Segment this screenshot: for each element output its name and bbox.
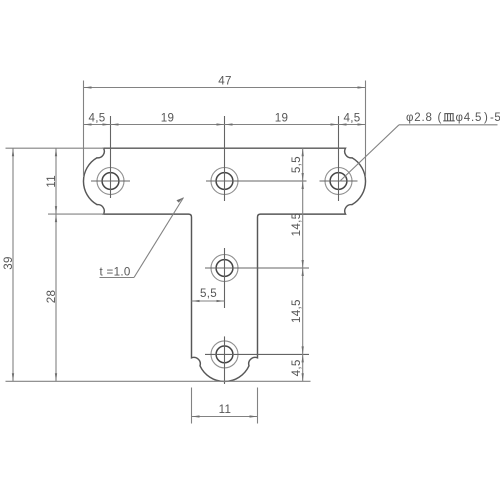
svg-text:φ4.5: φ4.5	[456, 112, 483, 124]
hole H1 left: countersink circle	[97, 168, 124, 195]
centerline H5 vertical	[224, 336, 226, 384]
leader underline of hole note	[399, 124, 498, 126]
centerline H1 horizontal	[91, 180, 130, 182]
arrowheads row2 bowtie at 224.5	[217, 123, 225, 125]
dimension line 11 / 28	[55, 148, 57, 381]
right chain arrow at 381.3	[302, 373, 304, 381]
hole H3 top-right: countersink circle	[325, 168, 352, 195]
hole H3 top-right: drill circle	[330, 173, 347, 190]
svg-text:14,5: 14,5	[290, 299, 303, 323]
svg-text:19: 19	[161, 112, 175, 125]
svg-text:11: 11	[219, 403, 232, 416]
hole H1 left: drill circle	[102, 173, 119, 190]
svg-text:(: (	[438, 112, 442, 124]
arrowheads bowtie at bar bottom 214.1	[55, 206, 57, 214]
leader diagonal of t=1.0	[134, 198, 184, 278]
svg-text:4,5: 4,5	[343, 112, 360, 125]
arrowheads 5,5 stem	[192, 300, 200, 302]
extension line right end of 47	[365, 81, 367, 178]
svg-text:47: 47	[218, 75, 232, 88]
svg-text:φ2.8: φ2.8	[406, 112, 433, 124]
arrowheads dim 11 top	[55, 148, 57, 156]
hole H5 bottom: countersink circle	[211, 341, 238, 368]
hole H2 top-center: drill circle	[216, 173, 233, 190]
arrowhead t=1.0 leader	[176, 198, 183, 203]
svg-text:t =1.0: t =1.0	[100, 266, 131, 279]
centerline H3 horizontal	[320, 180, 358, 182]
leader underline of t=1.0	[100, 277, 135, 279]
hole note countersink symbol (sara)	[443, 114, 455, 121]
svg-text:): )	[484, 112, 488, 124]
right chain bowtie at 181	[302, 173, 304, 181]
svg-text:11: 11	[45, 175, 58, 188]
centerline H4 horizontal + extension to right chain	[205, 267, 309, 269]
extension line stem left for bottom 11	[191, 388, 193, 424]
hole H5 bottom: drill circle	[216, 346, 233, 363]
dimension line row 4,5 / 19 / 19 / 4,5	[84, 124, 366, 126]
hole H4 middle: drill circle	[216, 260, 233, 277]
centerline H2 vertical	[224, 116, 226, 201]
centerline H4 vertical	[224, 248, 226, 308]
centerline H1 vertical	[110, 116, 112, 198]
svg-text:28: 28	[45, 290, 58, 304]
svg-text:5,5: 5,5	[290, 156, 303, 173]
svg-text:4,5: 4,5	[88, 112, 105, 125]
right chain bowtie at 268	[302, 260, 304, 268]
centerline H3 vertical	[338, 116, 340, 201]
extension line top edge to left	[6, 147, 105, 149]
arrowheads right chain at 148.2	[302, 148, 304, 156]
dimension line 39	[12, 148, 14, 381]
extension line left end of 47	[83, 81, 85, 178]
hole H4 middle: countersink circle	[211, 255, 238, 282]
centerline H2 horizontal + extension to right chain	[206, 180, 307, 182]
arrowheads row2 bowtie at 110.5	[103, 123, 111, 125]
dimension line right chain 5,5 / 14,5 / 14,5 / 4,5	[302, 148, 304, 381]
right chain bowtie at 354.4	[302, 346, 304, 354]
extension line bar bottom to left	[48, 213, 104, 215]
dimension line 5,5 stem	[192, 300, 225, 302]
arrowheads dim 47	[84, 86, 92, 88]
svg-text:19: 19	[275, 112, 289, 125]
dimension line bottom 11	[192, 416, 258, 418]
arrowhead dim 28 bottom	[55, 373, 57, 381]
svg-text:4,5: 4,5	[290, 359, 303, 376]
arrowheads bottom 11	[192, 415, 200, 417]
arrowheads dim 39	[12, 148, 14, 156]
arrowhead row2 at 365.5	[358, 123, 366, 125]
svg-text:5,5: 5,5	[200, 287, 217, 300]
hole H2 top-center: countersink circle	[211, 168, 238, 195]
arrowheads row2 at 83.5	[84, 123, 92, 125]
leader diagonal of hole note to H3	[340, 125, 400, 182]
extension line stem right for bottom 11	[257, 388, 259, 424]
svg-text:-5: -5	[490, 112, 500, 124]
dimension line 47	[84, 87, 366, 89]
plate outline (T-shaped bracket)	[83, 148, 365, 381]
svg-text:14,5: 14,5	[290, 213, 303, 237]
centerline H5 horizontal + extension to right chain	[205, 353, 309, 355]
svg-text:39: 39	[2, 256, 15, 270]
extension line plate bottom full width	[6, 380, 311, 382]
arrowheads row2 bowtie at 338.5	[331, 123, 339, 125]
